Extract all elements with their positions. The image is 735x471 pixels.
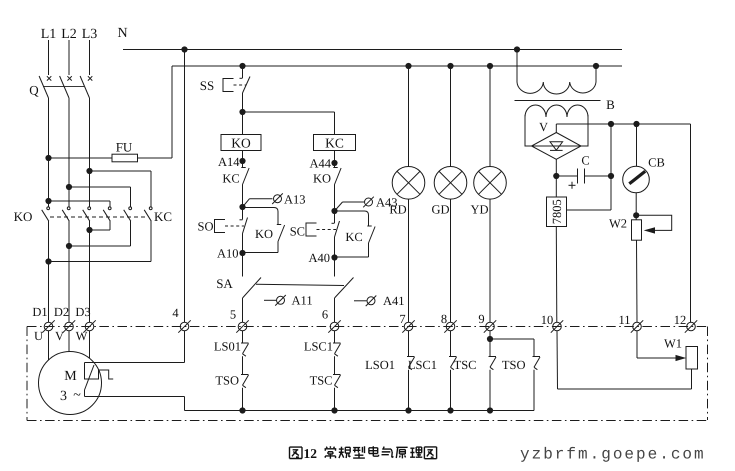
svg-text:L1: L1 [41, 27, 57, 42]
svg-text:LSC1: LSC1 [408, 358, 437, 372]
svg-text:B: B [606, 97, 615, 112]
svg-text:TSC: TSC [454, 358, 477, 372]
svg-text:W: W [76, 329, 88, 343]
svg-text:7805: 7805 [550, 199, 564, 224]
svg-text:KO: KO [14, 209, 33, 224]
svg-text:3: 3 [60, 389, 67, 404]
svg-text:A11: A11 [292, 294, 313, 308]
svg-text:4: 4 [172, 306, 179, 320]
svg-text:L2: L2 [61, 27, 77, 42]
svg-text:10: 10 [541, 313, 554, 327]
svg-text:CB: CB [648, 156, 665, 170]
svg-text:KC: KC [325, 136, 344, 151]
svg-text:7: 7 [399, 312, 405, 326]
svg-text:W2: W2 [609, 217, 627, 231]
svg-text:Q: Q [29, 83, 39, 98]
svg-text:6: 6 [322, 308, 328, 322]
svg-text:L3: L3 [82, 27, 98, 42]
svg-text:C: C [581, 154, 589, 168]
svg-text:M: M [64, 369, 77, 384]
svg-text:GD: GD [431, 203, 449, 217]
svg-text:SO: SO [198, 220, 214, 234]
svg-text:KC: KC [345, 230, 362, 244]
svg-text:TSO: TSO [502, 358, 526, 372]
svg-text:LS01: LS01 [214, 340, 241, 354]
svg-text:12: 12 [304, 446, 318, 461]
svg-text:D2: D2 [54, 305, 69, 319]
svg-text:RD: RD [389, 203, 406, 217]
svg-text:LSO1: LSO1 [365, 358, 395, 372]
svg-text:FU: FU [116, 140, 133, 155]
svg-text:SC: SC [290, 225, 305, 239]
svg-text:8: 8 [441, 312, 447, 326]
svg-text:yzbrfm.goepe.com: yzbrfm.goepe.com [520, 446, 706, 464]
svg-text:D1: D1 [32, 305, 47, 319]
svg-text:KC: KC [222, 172, 239, 186]
svg-text:D3: D3 [75, 305, 90, 319]
svg-text:KO: KO [313, 172, 331, 186]
svg-text:LSC1: LSC1 [304, 340, 333, 354]
svg-text:A10: A10 [217, 247, 239, 261]
svg-text:N: N [117, 26, 127, 41]
svg-text:KC: KC [154, 209, 172, 224]
svg-text:SS: SS [200, 78, 214, 93]
svg-text:A13: A13 [284, 193, 306, 207]
svg-text:A41: A41 [383, 294, 405, 308]
svg-text:KO: KO [231, 136, 251, 151]
svg-text:V: V [55, 329, 64, 343]
svg-text:A40: A40 [308, 251, 330, 265]
svg-text:~: ~ [73, 388, 81, 403]
svg-text:SA: SA [216, 276, 233, 291]
svg-text:W1: W1 [664, 337, 682, 351]
svg-text:V: V [539, 120, 548, 134]
svg-text:5: 5 [230, 308, 236, 322]
svg-text:A14: A14 [218, 155, 240, 169]
svg-text:U: U [34, 329, 43, 343]
svg-text:9: 9 [478, 312, 484, 326]
svg-text:12: 12 [674, 313, 687, 327]
svg-text:11: 11 [618, 313, 630, 327]
svg-text:YD: YD [470, 203, 488, 217]
svg-text:TSO: TSO [215, 374, 239, 388]
svg-text:A44: A44 [309, 157, 331, 171]
svg-text:TSC: TSC [310, 374, 333, 388]
svg-text:KO: KO [255, 227, 273, 241]
